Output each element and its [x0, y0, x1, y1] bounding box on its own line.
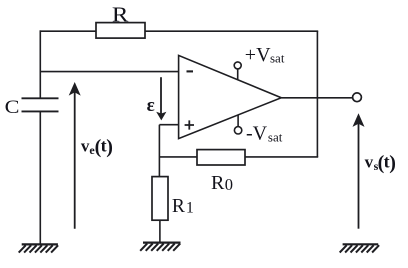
label ve(t) [81, 136, 113, 158]
label R1 [172, 196, 194, 217]
svg-text:v: v [365, 153, 374, 172]
op-amp plus pin label [185, 120, 194, 129]
ground right [340, 244, 379, 252]
svg-text:ε: ε [147, 95, 155, 116]
ground left [19, 244, 58, 252]
svg-text:R: R [172, 196, 185, 217]
arrow epsilon [156, 77, 166, 120]
wire node B vertical (plus input down to R1) [158, 125, 160, 177]
wire left vertical upper (node A to C top) [39, 30, 41, 98]
svg-text:1: 1 [186, 199, 194, 216]
svg-text:sat: sat [268, 129, 283, 144]
svg-text:): ) [106, 136, 113, 158]
svg-text:-V: -V [246, 123, 268, 145]
svg-text:0: 0 [225, 175, 233, 194]
wire top right (R to right vertical) [145, 30, 318, 32]
ground middle [140, 243, 180, 251]
label vs(t) [365, 152, 396, 174]
svg-text:+V: +V [245, 44, 271, 66]
wire R0 right [245, 156, 318, 158]
resistor R1 [152, 177, 168, 221]
op-amp U1 triangle [179, 55, 282, 138]
arrow vs(t) [353, 113, 365, 228]
svg-text:): ) [389, 152, 396, 174]
wire +Vsat stem [237, 69, 239, 80]
svg-text:R: R [112, 3, 129, 26]
-Vsat supply terminal circle [234, 127, 241, 134]
+Vsat supply terminal circle [234, 62, 241, 69]
wire right vertical (feedback) [316, 31, 318, 157]
wire top left (node A to R) [40, 30, 97, 32]
svg-text:sat: sat [270, 50, 285, 65]
label +Vsat [245, 44, 285, 66]
resistor R0 [197, 150, 245, 165]
wire R0 left [159, 156, 197, 158]
op-amp minus pin label [187, 70, 194, 72]
wire left vertical lower (C bottom to ground) [39, 111, 41, 243]
wire inverting input [40, 71, 178, 73]
resistor R [96, 23, 145, 38]
label -Vsat [246, 123, 283, 145]
arrow ve(t) [69, 82, 81, 229]
svg-text:C: C [5, 97, 20, 117]
wire output [281, 97, 352, 99]
svg-text:R: R [211, 172, 225, 194]
wire R1 to ground [159, 220, 161, 242]
capacitor C [22, 98, 59, 111]
label R0 [211, 172, 233, 194]
output terminal circle [353, 93, 362, 102]
wire non-inverting input [159, 124, 178, 126]
wire -Vsat stem [237, 115, 239, 127]
